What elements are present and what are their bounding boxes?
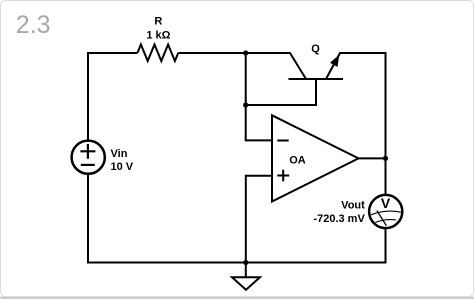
svg-text:R: R [154,15,162,27]
svg-text:Vout: Vout [341,200,365,212]
voltmeter scale arc inner [375,220,396,223]
wire op-amp output [359,157,386,159]
svg-text:Q: Q [311,43,320,55]
voltmeter needle [377,211,387,226]
wire base to node [246,79,316,105]
ground stem [245,263,247,278]
voltage source V1 circle [72,141,105,174]
voltmeter circle [369,195,402,228]
transistor Q base bar [289,78,344,80]
resistor R [138,45,179,62]
card background [0,297,474,299]
voltmeter scale arc outer [371,211,401,215]
svg-text:1 kΩ: 1 kΩ [146,29,170,41]
svg-text:2.3: 2.3 [16,11,51,39]
transistor emitter arrowhead [330,55,339,67]
svg-text:Vin: Vin [111,148,128,160]
wire right rail lower, bottom rail, left rail lower [88,175,386,263]
ground symbol [232,277,260,290]
op-amp OA triangle [272,115,359,201]
junction node output [383,156,388,161]
wire resistor to collector and transistor Q collector [178,53,306,79]
op-amp minus sign [277,140,288,142]
junction node top [243,50,248,55]
svg-text:-720.3 mV: -720.3 mV [313,213,365,225]
op-amp plus sign [277,170,289,182]
svg-text:OA: OA [289,155,306,167]
junction node base [243,102,248,107]
transistor Q emitter, wire to right rail upper [326,53,386,194]
junction node ground [243,260,248,265]
voltage source minus sign [81,164,95,166]
wire noninverting input to ground rail [246,176,273,263]
svg-text:V: V [381,195,391,211]
wire top-left horizontal and left rail upper [88,53,138,140]
voltage source plus sign [80,144,95,159]
wire middle vertical node to inverting input [246,53,273,140]
svg-text:10 V: 10 V [111,161,134,173]
